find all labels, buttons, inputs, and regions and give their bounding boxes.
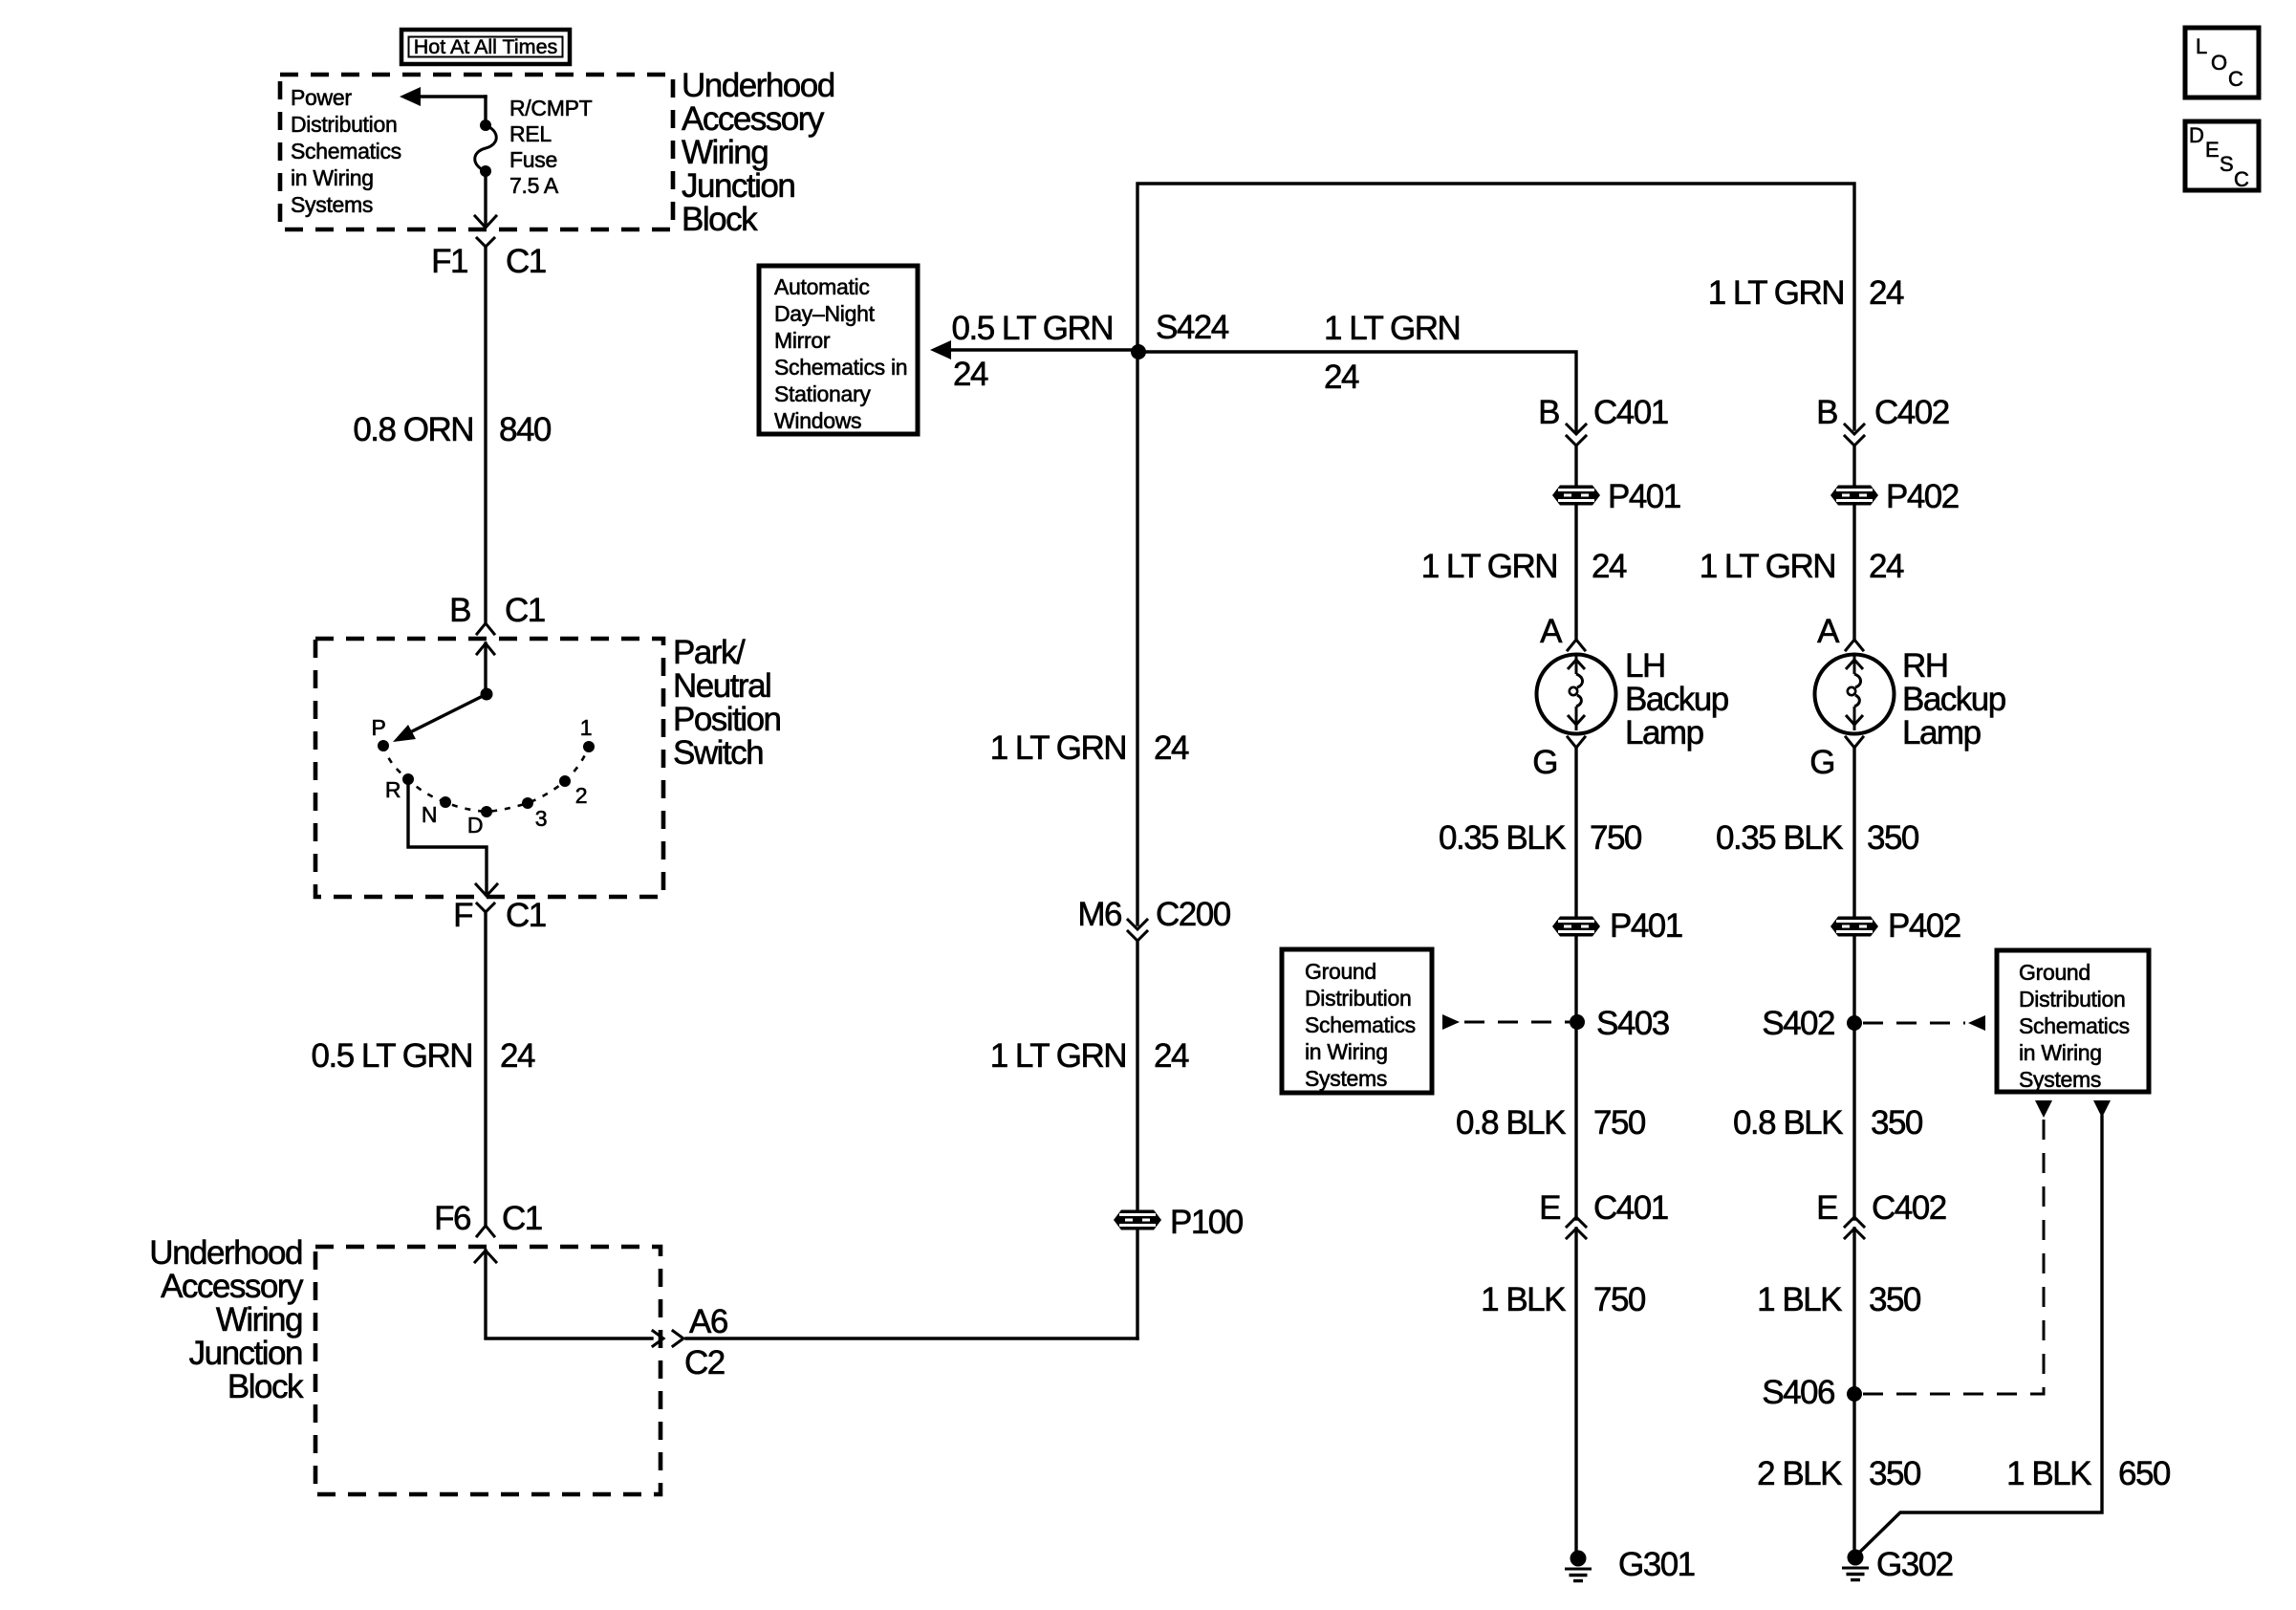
svg-text:Ground: Ground	[2019, 960, 2090, 985]
svg-text:Backup: Backup	[1902, 681, 2005, 718]
svg-text:Accessory: Accessory	[682, 100, 825, 138]
arrow to power distribution schematics	[400, 87, 486, 106]
wire from ground distribution box down to G302 (1 BLK 650)	[1858, 1100, 2171, 1554]
pass-through grommet P401 (lower)	[1552, 917, 1600, 937]
svg-text:750: 750	[1593, 1104, 1646, 1142]
svg-text:24: 24	[1154, 1037, 1189, 1075]
svg-text:7.5 A: 7.5 A	[509, 173, 559, 198]
wire P100 down to A6 feed	[1136, 1231, 1138, 1338]
svg-text:Accessory: Accessory	[161, 1268, 304, 1305]
svg-text:24: 24	[1869, 548, 1904, 585]
wire F down to F6 (0.5 LT GRN 24)	[484, 912, 487, 1225]
svg-text:R: R	[385, 777, 401, 802]
wire G down to P401 (0.35 BLK 750)	[1574, 748, 1577, 916]
svg-text:D: D	[2189, 123, 2204, 147]
svg-text:A: A	[1817, 613, 1840, 650]
svg-text:Wiring: Wiring	[682, 134, 768, 171]
splice S403	[1570, 1014, 1585, 1030]
svg-text:E: E	[1816, 1189, 1837, 1227]
svg-text:S403: S403	[1596, 1005, 1669, 1042]
svg-text:0.35 BLK: 0.35 BLK	[1439, 819, 1566, 857]
svg-text:24: 24	[1154, 729, 1189, 767]
svg-text:Ground: Ground	[1305, 959, 1376, 984]
svg-text:C2: C2	[684, 1344, 725, 1382]
svg-text:C401: C401	[1593, 1189, 1668, 1227]
svg-text:Lamp: Lamp	[1625, 714, 1703, 751]
LOC tab	[2185, 28, 2259, 98]
svg-text:1 LT GRN: 1 LT GRN	[1421, 548, 1557, 585]
svg-text:C1: C1	[505, 592, 545, 629]
svg-text:A6: A6	[689, 1303, 727, 1340]
svg-text:0.8 BLK: 0.8 BLK	[1456, 1104, 1566, 1142]
svg-text:Junction: Junction	[189, 1335, 302, 1372]
svg-text:350: 350	[1869, 1281, 1921, 1318]
switch contact 3	[522, 797, 533, 809]
svg-text:in Wiring: in Wiring	[1305, 1039, 1388, 1064]
wire label 2 BLK 350	[1757, 1455, 1921, 1492]
svg-text:P402: P402	[1886, 478, 1959, 515]
switch contact N	[440, 796, 451, 808]
svg-text:Underhood: Underhood	[149, 1234, 302, 1272]
label: Underhood Accessory Wiring Junction Block (left of box)	[149, 1234, 304, 1405]
svg-text:0.8 BLK: 0.8 BLK	[1733, 1104, 1843, 1142]
top bus wire	[1137, 184, 1854, 429]
wire B to P402	[1852, 446, 1855, 485]
pass-through grommet P402	[1830, 486, 1878, 506]
svg-text:E: E	[1539, 1189, 1560, 1227]
fuse value label R/CMPT REL Fuse 7.5 A	[509, 96, 593, 198]
svg-text:P: P	[371, 715, 385, 740]
DESC tab	[2185, 121, 2259, 191]
arrow out of switch (open arrowhead at dashed border)	[476, 884, 497, 896]
wire B to P401	[1574, 446, 1577, 485]
svg-text:1 LT GRN: 1 LT GRN	[1700, 548, 1835, 585]
svg-text:Distribution: Distribution	[291, 112, 397, 137]
svg-text:Schematics: Schematics	[291, 139, 401, 163]
svg-text:B: B	[1816, 394, 1837, 431]
svg-text:3: 3	[535, 806, 548, 831]
svg-text:LH: LH	[1625, 647, 1665, 685]
wire G down to P402 (0.35 BLK 350)	[1852, 748, 1855, 916]
dashed reference to ground distribution schematics (left)	[1442, 1014, 1570, 1030]
svg-text:Systems: Systems	[291, 192, 373, 217]
svg-text:P402: P402	[1888, 907, 1960, 945]
fuse R/CMPT REL 7.5 A	[475, 120, 497, 177]
svg-text:Power: Power	[291, 85, 352, 110]
wire label 1 LT GRN 24 (top right)	[1708, 274, 1904, 312]
svg-text:Distribution: Distribution	[1305, 986, 1411, 1011]
svg-text:1: 1	[580, 715, 593, 740]
svg-text:Switch: Switch	[673, 734, 763, 772]
svg-text:Systems: Systems	[2019, 1067, 2101, 1092]
wire E down to G301 (1 BLK 750)	[1574, 1229, 1577, 1558]
svg-text:P401: P401	[1610, 907, 1682, 945]
svg-text:B: B	[1538, 394, 1559, 431]
svg-text:P100: P100	[1170, 1204, 1244, 1241]
svg-text:1 BLK: 1 BLK	[1757, 1281, 1842, 1318]
connector E / C402	[1816, 1189, 1946, 1238]
svg-text:24: 24	[500, 1037, 535, 1075]
svg-text:24: 24	[1324, 359, 1359, 396]
svg-text:N: N	[422, 802, 437, 827]
wire label 0.8 ORN 840	[353, 411, 552, 448]
svg-text:1 LT GRN: 1 LT GRN	[1324, 310, 1460, 347]
wire E down to G302 (1 BLK 350)	[1852, 1229, 1855, 1557]
svg-text:S: S	[2220, 152, 2234, 176]
svg-text:1 BLK: 1 BLK	[1481, 1281, 1566, 1318]
svg-text:F: F	[453, 897, 472, 934]
svg-text:C1: C1	[506, 897, 546, 934]
svg-text:0.8 ORN: 0.8 ORN	[353, 411, 473, 448]
switch contact P	[378, 740, 389, 751]
svg-text:C402: C402	[1874, 394, 1949, 431]
svg-text:Neutral: Neutral	[673, 667, 770, 705]
connector F1 / C1	[431, 238, 546, 280]
svg-text:C1: C1	[502, 1200, 542, 1237]
connector F / C1	[453, 897, 546, 934]
svg-text:E: E	[2205, 138, 2220, 162]
svg-text:F6: F6	[434, 1200, 470, 1237]
wire from R contact down and out of switch	[408, 784, 487, 893]
connector E / C401	[1539, 1189, 1668, 1238]
svg-text:Wiring: Wiring	[216, 1301, 302, 1338]
connector A6 / C2	[653, 1303, 727, 1382]
svg-text:Lamp: Lamp	[1902, 714, 1981, 751]
svg-text:Fuse: Fuse	[509, 147, 557, 172]
svg-text:Park/: Park/	[673, 634, 746, 671]
svg-text:RH: RH	[1902, 647, 1948, 685]
svg-text:Schematics: Schematics	[1305, 1012, 1416, 1037]
svg-text:0.35 BLK: 0.35 BLK	[1716, 819, 1843, 857]
svg-text:1 LT GRN: 1 LT GRN	[1708, 274, 1844, 312]
svg-text:2: 2	[575, 783, 588, 808]
svg-text:1 LT GRN: 1 LT GRN	[990, 729, 1126, 767]
wire M6 to P100 (1 LT GRN 24)	[1136, 941, 1138, 1208]
pass-through grommet P401	[1552, 486, 1600, 506]
switch contact D	[481, 806, 492, 817]
svg-text:R/CMPT: R/CMPT	[509, 96, 593, 120]
svg-text:M6: M6	[1077, 896, 1121, 933]
arrow to day-night mirror schematics (0.5 LT GRN 24)	[930, 310, 1137, 393]
svg-text:Position: Position	[673, 701, 781, 738]
connector B / C402	[1816, 394, 1949, 446]
junction block (underhood accessory wiring, bottom) dashed box	[315, 1247, 661, 1494]
svg-text:C1: C1	[506, 243, 546, 280]
svg-text:Stationary: Stationary	[774, 381, 871, 406]
connector B / C1	[449, 592, 545, 634]
ground G302	[1842, 1550, 1869, 1580]
switch contact 2	[559, 775, 571, 787]
svg-text:Backup: Backup	[1625, 681, 1728, 718]
svg-text:G302: G302	[1876, 1546, 1953, 1583]
svg-text:in Wiring: in Wiring	[291, 165, 374, 190]
svg-text:750: 750	[1590, 819, 1642, 857]
svg-text:350: 350	[1871, 1104, 1923, 1142]
wire F1 down to B (0.8 ORN 840)	[484, 247, 487, 621]
svg-text:C401: C401	[1593, 394, 1668, 431]
svg-text:2 BLK: 2 BLK	[1757, 1455, 1842, 1492]
svg-text:Automatic: Automatic	[774, 274, 870, 299]
switch contact 1	[583, 741, 595, 752]
label: Underhood Accessory Wiring Junction Block (top right of box)	[682, 67, 834, 238]
svg-text:S406: S406	[1762, 1374, 1834, 1411]
svg-text:Schematics: Schematics	[2019, 1013, 2130, 1038]
svg-text:0.5 LT GRN: 0.5 LT GRN	[952, 310, 1114, 347]
svg-text:Distribution: Distribution	[2019, 987, 2125, 1012]
svg-text:Block: Block	[682, 201, 758, 238]
dashed reference from S406 to ground distribution box	[1863, 1117, 2044, 1394]
svg-text:P401: P401	[1608, 478, 1680, 515]
lamp terminal G	[1532, 737, 1585, 781]
svg-text:in Wiring: in Wiring	[2019, 1040, 2102, 1065]
svg-text:REL: REL	[509, 121, 552, 146]
svg-text:24: 24	[953, 356, 988, 393]
svg-text:Underhood: Underhood	[682, 67, 834, 104]
wire P402 to lamp (1 LT GRN 24)	[1852, 506, 1855, 638]
connector B / C401	[1538, 394, 1668, 446]
svg-text:Mirror: Mirror	[774, 328, 831, 353]
note box: Ground Distribution Schematics in Wiring Systems (right)	[1997, 950, 2149, 1092]
connector M6 / C200	[1077, 896, 1230, 941]
svg-text:Hot At All Times: Hot At All Times	[414, 35, 558, 58]
wire inside junction block (arrow up, down then right to A6)	[475, 1251, 652, 1338]
svg-text:G301: G301	[1618, 1546, 1695, 1583]
arrow out of junction block (open arrowhead at dashed border)	[475, 216, 496, 228]
svg-text:24: 24	[1592, 548, 1627, 585]
wire label 0.5 LT GRN 24	[312, 1037, 535, 1075]
wire S424 down to M6 (1 LT GRN 24)	[1136, 352, 1138, 925]
svg-text:840: 840	[499, 411, 552, 448]
svg-text:350: 350	[1869, 1455, 1921, 1492]
splice S402	[1847, 1015, 1862, 1031]
svg-text:S424: S424	[1156, 309, 1229, 346]
junction block (underhood accessory wiring, top) dashed box	[280, 75, 673, 229]
wire from S424 right to LH lamp column (1 LT GRN 24)	[1138, 310, 1576, 430]
svg-text:Block: Block	[227, 1368, 304, 1405]
switch contact R	[402, 773, 414, 785]
wire from arrow corner down to fuse	[484, 97, 487, 124]
pass-through grommet P402 (lower)	[1830, 917, 1878, 937]
wire P401 to lamp (1 LT GRN 24)	[1574, 506, 1577, 638]
svg-text:0.5 LT GRN: 0.5 LT GRN	[312, 1037, 473, 1075]
pass-through grommet P100	[1114, 1210, 1161, 1230]
arrowhead into ground distribution box (dashed branch)	[2035, 1100, 2052, 1118]
wire entering switch (arrow up inside box)	[477, 643, 494, 691]
note box: Ground Distribution Schematics in Wiring Systems (left)	[1282, 949, 1432, 1093]
svg-text:Day–Night: Day–Night	[774, 301, 876, 326]
lamp terminal A	[1540, 613, 1585, 650]
svg-text:Windows: Windows	[774, 408, 861, 433]
svg-text:G: G	[1809, 744, 1834, 781]
dashed reference to ground distribution schematics (right)	[1863, 1015, 1985, 1031]
svg-text:650: 650	[2118, 1455, 2171, 1492]
ground G301	[1565, 1551, 1592, 1581]
svg-text:C402: C402	[1872, 1189, 1946, 1227]
RH backup lamp	[1815, 655, 1895, 734]
wire from fuse to junction block edge	[484, 171, 487, 224]
svg-text:O: O	[2211, 51, 2227, 75]
note: Power Distribution Schematics in Wiring Systems	[291, 85, 401, 217]
svg-text:L: L	[2196, 34, 2207, 58]
switch wiper arrow toward P	[393, 694, 487, 742]
wire P402 down to E (0.8 BLK 350)	[1852, 937, 1855, 1219]
connector F6 / C1	[434, 1200, 542, 1237]
svg-text:750: 750	[1593, 1281, 1646, 1318]
switch contact arc (dashed)	[383, 746, 589, 812]
label box: Hot At All Times	[401, 30, 570, 64]
svg-text:G: G	[1532, 744, 1557, 781]
svg-text:1 LT GRN: 1 LT GRN	[990, 1037, 1126, 1075]
svg-text:24: 24	[1869, 274, 1904, 312]
svg-text:Systems: Systems	[1305, 1066, 1387, 1091]
svg-text:C200: C200	[1156, 896, 1231, 933]
LH backup lamp	[1537, 655, 1616, 734]
lamp terminal G	[1809, 737, 1863, 781]
splice S406	[1847, 1386, 1862, 1402]
lamp terminal A	[1817, 613, 1863, 650]
svg-text:350: 350	[1867, 819, 1919, 857]
svg-text:S402: S402	[1762, 1005, 1834, 1042]
svg-text:F1: F1	[431, 243, 467, 280]
svg-text:D: D	[467, 813, 483, 838]
svg-text:C: C	[2228, 67, 2243, 91]
svg-text:B: B	[449, 592, 470, 629]
label: Park/Neutral Position Switch	[673, 634, 781, 772]
note box: Automatic Day-Night Mirror Schematics in Stationary Windows	[759, 266, 918, 434]
park/neutral position switch dashed box	[315, 639, 663, 897]
svg-text:1 BLK: 1 BLK	[2006, 1455, 2091, 1492]
svg-text:Junction: Junction	[682, 167, 794, 205]
svg-text:Schematics in: Schematics in	[774, 355, 907, 380]
wire P401 down to E (0.8 BLK 750)	[1574, 937, 1577, 1219]
splice S424	[1131, 344, 1146, 359]
svg-text:C: C	[2234, 167, 2249, 191]
svg-text:A: A	[1540, 613, 1563, 650]
wire from A6 to middle column	[686, 1337, 1137, 1339]
switch wiper pivot	[481, 688, 493, 701]
